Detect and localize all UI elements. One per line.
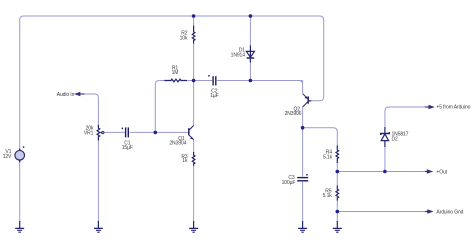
svg-text:12V: 12V	[3, 154, 12, 160]
svg-text:Audio In: Audio In	[57, 92, 75, 98]
svg-text:2N3904: 2N3904	[169, 140, 186, 146]
svg-text:1k: 1k	[182, 158, 188, 164]
svg-text:5.1k: 5.1k	[323, 193, 333, 199]
svg-text:100µF: 100µF	[282, 180, 296, 186]
svg-text:15µF: 15µF	[122, 145, 133, 151]
svg-text:5.1k: 5.1k	[323, 154, 333, 160]
svg-text:+5 from Arduino: +5 from Arduino	[436, 105, 470, 111]
svg-text:1M: 1M	[172, 70, 179, 76]
svg-text:1µF: 1µF	[210, 93, 218, 99]
svg-text:D2: D2	[392, 136, 399, 142]
svg-text:VR1: VR1	[84, 130, 94, 136]
svg-text:1N914: 1N914	[231, 53, 246, 59]
svg-text:10k: 10k	[180, 35, 188, 41]
svg-text:Arduino Gnd: Arduino Gnd	[436, 209, 463, 215]
svg-text:+Out: +Out	[436, 170, 447, 176]
svg-text:2N3906: 2N3906	[285, 111, 302, 117]
